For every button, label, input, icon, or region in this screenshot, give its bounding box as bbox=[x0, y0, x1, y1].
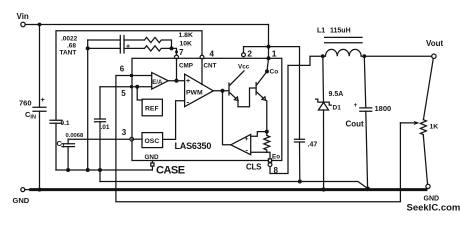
capacitor .0022 row wire bbox=[88, 39, 144, 41]
transistor Q1 collector bbox=[230, 71, 245, 86]
inductor L1 left node dot bbox=[321, 54, 325, 58]
svg-text:Vout: Vout bbox=[426, 39, 444, 48]
resistor 10K zigzag bbox=[145, 46, 177, 55]
svg-text:CT: CT bbox=[57, 139, 66, 150]
wire REF tap bbox=[137, 87, 142, 100]
capacitor .47 plates bbox=[295, 139, 305, 142]
pot wiper arrowhead bbox=[414, 121, 420, 125]
resistor R sense zigzag bbox=[264, 136, 270, 153]
capacitor CT 0.0068 top lead bbox=[67, 139, 69, 144]
resistor 1.8K zigzag bbox=[145, 37, 172, 48]
svg-text:-: - bbox=[187, 98, 190, 107]
wire pin6 left and feedback down bbox=[116, 76, 401, 202]
svg-text:Co: Co bbox=[270, 69, 279, 76]
wire pin8 to inductor riser bbox=[270, 56, 321, 173]
node CIN gnd dot bbox=[38, 188, 42, 192]
pin 2 circle Vcc bbox=[242, 53, 246, 57]
node .01 gnd dot bbox=[98, 168, 102, 172]
wire ground return y181.5 bbox=[100, 182, 368, 189]
node REF tap dot bbox=[135, 85, 139, 89]
wire sense resistor to pin8 bbox=[267, 152, 270, 162]
transistor Q1 emitter bbox=[230, 93, 239, 101]
svg-text:REF: REF bbox=[145, 106, 159, 113]
svg-text:E/A: E/A bbox=[152, 80, 163, 86]
transistor Q1 base bar bbox=[228, 83, 230, 95]
node PWM out dot bbox=[221, 89, 225, 93]
capacitor .01 plates bbox=[95, 119, 106, 122]
node GND right terminal bbox=[426, 184, 430, 188]
inductor L1 coil bbox=[323, 49, 365, 56]
pin 6 square bbox=[130, 74, 133, 77]
pin 4 circle CNT bbox=[200, 55, 204, 59]
svg-text:1.8K: 1.8K bbox=[179, 32, 193, 39]
capacitor .68 row wire bbox=[88, 47, 144, 49]
svg-text:10K: 10K bbox=[180, 41, 193, 48]
svg-text:TANT: TANT bbox=[60, 50, 77, 57]
wire gnd jog down to y181.5 bbox=[99, 170, 101, 182]
wire CNT internal stub bbox=[201, 58, 203, 84]
wire pot wiper arrow bbox=[400, 122, 415, 124]
resistor 1K pot zigzag bbox=[420, 120, 426, 136]
inductor L1 core bars bbox=[325, 37, 362, 42]
node CT gnd dot bbox=[66, 168, 70, 172]
svg-text:Eo: Eo bbox=[272, 154, 280, 161]
wire Vin top rail bbox=[40, 24, 269, 26]
box REF bbox=[142, 99, 162, 116]
node rail junction A bbox=[267, 45, 271, 49]
svg-text:6: 6 bbox=[120, 65, 125, 74]
capacitor 0.1 bottom lead bbox=[55, 123, 57, 170]
wire PWM output to Q1 base bbox=[213, 90, 229, 92]
wire Vout down to pot bbox=[423, 58, 433, 119]
diode D1 lead bbox=[322, 56, 325, 188]
svg-text:7: 7 bbox=[179, 48, 184, 57]
svg-text:0.0068: 0.0068 bbox=[66, 133, 85, 139]
svg-text:CNT: CNT bbox=[204, 63, 217, 70]
svg-text:1800: 1800 bbox=[375, 104, 392, 113]
wire OSC to PWM minus input bbox=[163, 101, 185, 140]
svg-text:+: + bbox=[186, 78, 190, 85]
wire output rail to Vout bbox=[364, 55, 431, 57]
svg-text:GND: GND bbox=[424, 196, 440, 203]
ground bus thick bbox=[31, 188, 426, 191]
wire rail down to pins 1,2 bbox=[268, 25, 270, 47]
node D1 gnd dot bbox=[322, 187, 326, 191]
pin 8 circle bbox=[268, 163, 272, 167]
svg-text:115uH: 115uH bbox=[330, 28, 351, 35]
node 1.8K/10K join dot bbox=[170, 46, 174, 50]
node .47 gnd dot bbox=[298, 180, 302, 184]
svg-text:CASE: CASE bbox=[156, 165, 185, 177]
wire Q1 emitter to Q2 base bbox=[238, 88, 256, 107]
svg-text:.47: .47 bbox=[308, 142, 318, 149]
inductor L1 right node dot bbox=[362, 54, 366, 58]
svg-text:Vin: Vin bbox=[17, 12, 29, 21]
node pin 1 dot bbox=[267, 56, 271, 60]
pin 5 square bbox=[130, 85, 133, 88]
transistor Q2 emitter bbox=[257, 92, 266, 100]
wire gnd left stub bbox=[25, 189, 31, 191]
node tant gnd dot bbox=[86, 168, 90, 172]
pin GND stub bbox=[151, 161, 153, 171]
svg-text:GND: GND bbox=[145, 154, 159, 161]
node Vin junction bbox=[38, 23, 42, 27]
svg-text:L1: L1 bbox=[317, 28, 325, 35]
node GND left terminal bbox=[21, 188, 25, 192]
capacitor CIN 760uF lead bbox=[39, 25, 41, 189]
wire pin6 to EA input bbox=[132, 75, 152, 77]
wire comparator plus tap bbox=[251, 132, 267, 137]
svg-text:LAS6350: LAS6350 bbox=[175, 141, 212, 151]
capacitor Cout plates bbox=[360, 108, 372, 111]
svg-text:CLS: CLS bbox=[246, 163, 262, 172]
pin 7 circle CMP bbox=[175, 55, 179, 59]
svg-text:GND: GND bbox=[13, 196, 30, 205]
wire rail to .47 cap bbox=[269, 47, 300, 140]
svg-text:+: + bbox=[354, 102, 358, 109]
wire pin3 to CT bbox=[68, 138, 132, 140]
svg-text:760: 760 bbox=[19, 99, 32, 108]
node Vin terminal bbox=[21, 22, 25, 26]
wire pot bottom to GND terminal bbox=[423, 136, 427, 185]
capacitor .01 top lead from pin5 wire bbox=[99, 87, 101, 119]
comparator CLS triangle bbox=[231, 134, 251, 154]
op-amp IC box LAS6350 bbox=[132, 58, 282, 160]
capacitor .01 bottom lead bbox=[99, 122, 101, 170]
diode D1 triangle bbox=[318, 102, 328, 110]
wire to pin 1 bbox=[268, 47, 270, 59]
wire pin5 to EA input bbox=[132, 86, 152, 88]
capacitor Cout top lead bbox=[364, 56, 366, 108]
wire pin3 to OSC bbox=[132, 138, 142, 140]
node Q2 collector dot bbox=[265, 69, 269, 73]
svg-text:.0022: .0022 bbox=[61, 36, 78, 43]
node Cout gnd dot bbox=[365, 187, 370, 192]
svg-text:PWM: PWM bbox=[186, 90, 203, 97]
svg-text:+: + bbox=[245, 136, 249, 143]
svg-text:0.1: 0.1 bbox=[61, 120, 70, 127]
capacitor CT bottom lead bbox=[67, 147, 69, 170]
wire to pin 2 bbox=[244, 47, 269, 53]
wire pin7 down to EA output bbox=[176, 58, 178, 81]
svg-text:D1: D1 bbox=[333, 105, 342, 112]
wire Q2 emitter to sense resistor bbox=[266, 100, 267, 135]
transistor Q1 emitter arrow bbox=[235, 97, 239, 100]
capacitor Cout bottom lead bbox=[366, 111, 368, 188]
diode D1 schottky bar bbox=[316, 99, 332, 105]
svg-text:Cout: Cout bbox=[346, 119, 365, 128]
svg-text:1K: 1K bbox=[430, 124, 439, 131]
capacitor CIN plates bbox=[33, 107, 46, 111]
wire pin1 to Q2 collector bbox=[267, 58, 269, 71]
op-amp PWM triangle bbox=[185, 74, 214, 107]
pin GND square bbox=[151, 163, 154, 166]
capacitor 0.1 top wire to pin 4 bbox=[56, 31, 202, 121]
capacitor 0.1 plates bbox=[50, 120, 62, 123]
pin Eo square bbox=[268, 159, 271, 162]
wire ground bus upper (y170) bbox=[56, 169, 152, 171]
svg-text:4: 4 bbox=[210, 50, 215, 59]
svg-text:8: 8 bbox=[274, 166, 279, 175]
node tant dot row2 bbox=[86, 46, 90, 50]
svg-text:.68: .68 bbox=[67, 43, 76, 50]
node plus tap dot bbox=[265, 130, 269, 134]
capacitor CT plates bbox=[62, 144, 75, 147]
svg-text:.01: .01 bbox=[101, 124, 110, 131]
node EA out dot bbox=[175, 79, 179, 83]
wire comparator minus tap bbox=[251, 151, 267, 153]
wire EA output to PWM bbox=[168, 80, 184, 82]
svg-text:+: + bbox=[126, 44, 130, 51]
op-amp E/A triangle bbox=[152, 73, 169, 90]
svg-text:3: 3 bbox=[122, 128, 127, 137]
node join blob bbox=[175, 50, 178, 53]
svg-text:5: 5 bbox=[121, 89, 126, 98]
svg-text:+: + bbox=[41, 95, 46, 104]
svg-text:2: 2 bbox=[247, 48, 252, 58]
transistor Q2 collector bbox=[257, 71, 267, 85]
transistor Q2 emitter arrow bbox=[262, 97, 266, 100]
pin 3 circle bbox=[130, 137, 134, 141]
node Vout terminal bbox=[432, 54, 436, 58]
wire CLS comparator output up bbox=[223, 91, 231, 145]
svg-text:SeekIC.com: SeekIC.com bbox=[407, 203, 460, 214]
box OSC bbox=[142, 133, 163, 148]
capacitor .0022 left node bbox=[87, 40, 89, 170]
wire pin5 left bbox=[100, 86, 132, 88]
capacitor .68 plates bbox=[120, 44, 124, 53]
svg-text:OSC: OSC bbox=[145, 138, 160, 145]
svg-text:9.5A: 9.5A bbox=[329, 91, 344, 98]
transistor Q2 base bar bbox=[255, 83, 257, 95]
capacitor .0022 plates bbox=[120, 36, 124, 45]
svg-text:Vcc: Vcc bbox=[238, 64, 250, 71]
svg-text:CMP: CMP bbox=[179, 63, 193, 70]
wire Vin to junction bbox=[25, 24, 38, 26]
svg-text:1: 1 bbox=[272, 49, 277, 59]
capacitor .47 bottom lead bbox=[299, 142, 301, 182]
